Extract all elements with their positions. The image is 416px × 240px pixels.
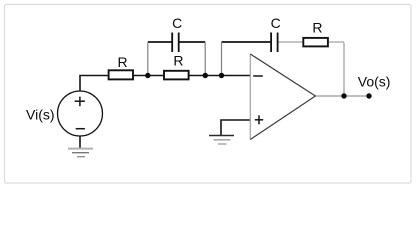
svg-text:C: C bbox=[271, 15, 281, 31]
svg-text:Vi(s): Vi(s) bbox=[26, 106, 55, 122]
svg-text:C: C bbox=[172, 15, 182, 31]
svg-text:Vo(s): Vo(s) bbox=[358, 74, 391, 90]
svg-text:R: R bbox=[117, 54, 127, 70]
svg-text:R: R bbox=[173, 53, 183, 69]
svg-text:R: R bbox=[312, 20, 322, 36]
